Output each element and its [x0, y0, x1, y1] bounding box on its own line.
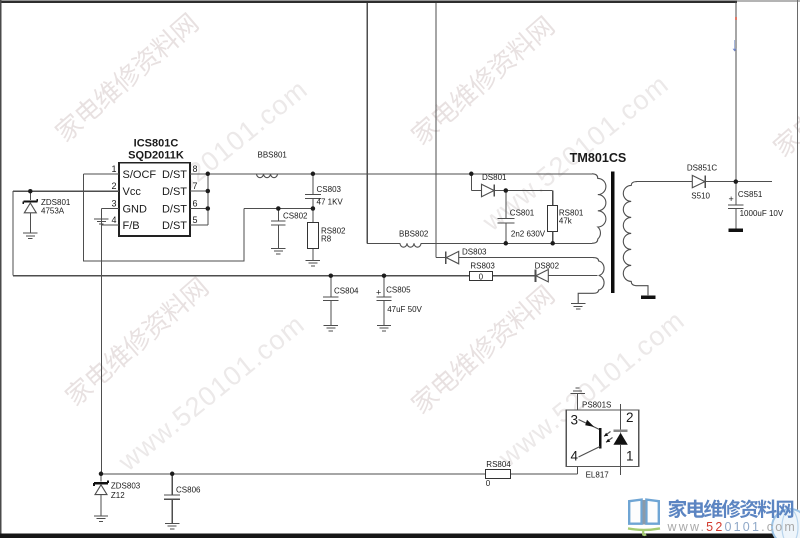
svg-text:RS803: RS803 — [470, 261, 495, 270]
svg-text:47k: 47k — [559, 216, 573, 225]
svg-text:CS801: CS801 — [510, 208, 535, 217]
svg-text:F/B: F/B — [123, 220, 140, 232]
svg-text:5: 5 — [193, 215, 198, 225]
svg-text:D/ST: D/ST — [162, 186, 187, 198]
svg-text:4: 4 — [111, 215, 116, 225]
svg-text:Vcc: Vcc — [123, 186, 142, 198]
svg-text:www.520101.com: www.520101.com — [667, 520, 797, 534]
svg-text:D/ST: D/ST — [162, 220, 187, 232]
svg-text:47 1KV: 47 1KV — [317, 197, 344, 206]
svg-text:S/OCF: S/OCF — [123, 169, 157, 181]
svg-text:CS803: CS803 — [317, 185, 342, 194]
svg-text:2: 2 — [626, 410, 634, 425]
svg-text:0: 0 — [479, 272, 484, 281]
svg-text:D/ST: D/ST — [162, 204, 187, 216]
svg-text:ZDS803: ZDS803 — [111, 482, 141, 491]
svg-text:PS801S: PS801S — [582, 400, 611, 409]
svg-text:DS851C: DS851C — [687, 163, 717, 172]
svg-text:2n2 630V: 2n2 630V — [511, 229, 546, 238]
svg-text:3: 3 — [111, 199, 116, 209]
svg-text:7: 7 — [193, 181, 198, 191]
svg-text:EL817: EL817 — [586, 470, 610, 479]
svg-text:+: + — [376, 288, 381, 298]
svg-text:GND: GND — [123, 204, 148, 216]
svg-text:0: 0 — [486, 479, 491, 488]
svg-text:CS805: CS805 — [386, 285, 411, 294]
svg-text:4753A: 4753A — [41, 206, 65, 215]
svg-text:Z12: Z12 — [111, 491, 125, 500]
svg-text:DS801: DS801 — [482, 173, 507, 182]
svg-text:1: 1 — [111, 164, 116, 174]
svg-text:CS802: CS802 — [283, 212, 308, 221]
svg-text:2: 2 — [111, 181, 116, 191]
svg-text:TM801CS: TM801CS — [570, 151, 627, 165]
svg-text:4: 4 — [571, 449, 579, 464]
svg-text:CS851: CS851 — [738, 190, 763, 199]
svg-text:DS802: DS802 — [535, 261, 560, 270]
svg-text:+: + — [729, 194, 734, 204]
svg-text:CS806: CS806 — [176, 485, 201, 494]
svg-text:BBS801: BBS801 — [258, 150, 288, 159]
svg-text:CS804: CS804 — [334, 286, 359, 295]
svg-text:SQD2011K: SQD2011K — [128, 150, 184, 162]
svg-text:S510: S510 — [691, 191, 710, 200]
svg-text:8: 8 — [193, 164, 198, 174]
svg-text:D/ST: D/ST — [162, 169, 187, 181]
svg-text:1000uF 10V: 1000uF 10V — [740, 209, 784, 218]
svg-text:6: 6 — [193, 199, 198, 209]
svg-text:3: 3 — [571, 412, 579, 427]
svg-text:RS804: RS804 — [486, 460, 511, 469]
svg-text:1: 1 — [626, 449, 634, 464]
svg-text:BBS802: BBS802 — [399, 230, 429, 239]
svg-text:DS803: DS803 — [462, 247, 487, 256]
svg-text:47uF 50V: 47uF 50V — [387, 305, 422, 314]
svg-text:ICS801C: ICS801C — [134, 138, 179, 150]
svg-text:R8: R8 — [321, 234, 332, 243]
